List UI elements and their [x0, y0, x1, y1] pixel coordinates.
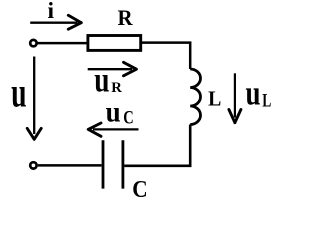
resistor R: [88, 36, 141, 51]
svg-text:u: u: [106, 96, 121, 129]
wire right lower: [124, 125, 190, 166]
voltage arrow uL: [234, 73, 236, 117]
svg-text:i: i: [48, 0, 55, 24]
svg-text:R: R: [111, 80, 122, 96]
svg-text:u: u: [246, 73, 261, 112]
svg-text:C: C: [132, 176, 147, 197]
svg-text:C: C: [123, 107, 133, 128]
wire top-right: [142, 43, 190, 69]
voltage arrow uC: [93, 128, 139, 130]
svg-text:L: L: [262, 89, 271, 111]
svg-text:R: R: [118, 5, 134, 30]
wire bottom-left: [38, 164, 102, 167]
wire top-left: [37, 42, 88, 45]
current arrow i: [30, 22, 77, 24]
voltage arrow u (left): [33, 57, 35, 135]
voltage arrow uR: [88, 68, 132, 70]
terminal top-left: [30, 40, 36, 46]
capacitor C: [103, 140, 123, 188]
svg-text:L: L: [208, 88, 221, 111]
inductor L: [190, 69, 200, 125]
terminal bottom-left: [30, 162, 36, 168]
svg-text:u: u: [11, 69, 26, 116]
svg-text:u: u: [94, 60, 109, 99]
